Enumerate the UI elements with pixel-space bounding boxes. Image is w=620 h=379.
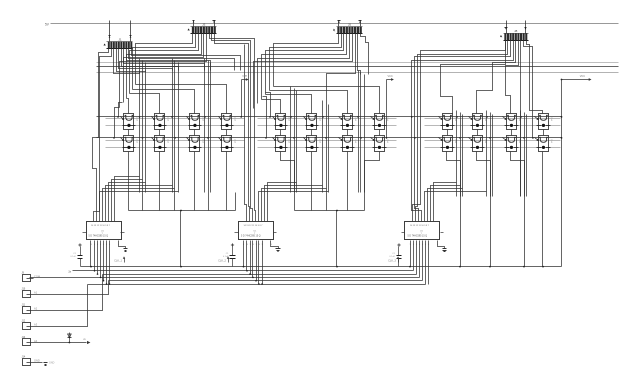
svg-text:CLK_3: CLK_3 bbox=[388, 259, 396, 263]
svg-text:COM: COM bbox=[34, 275, 40, 279]
svg-text:J1: J1 bbox=[118, 38, 122, 42]
svg-text:VCC: VCC bbox=[580, 75, 585, 78]
svg-text:Q1A: Q1A bbox=[386, 139, 389, 144]
svg-text:VPP: VPP bbox=[242, 75, 247, 78]
svg-text:A2: A2 bbox=[34, 307, 38, 311]
svg-text:VCC: VCC bbox=[388, 75, 393, 78]
svg-text:5 D 74HC595 15 Q: 5 D 74HC595 15 Q bbox=[408, 236, 428, 238]
svg-text:Q1A: Q1A bbox=[167, 117, 170, 122]
svg-text:14 13 12 11 10 9 8 7: 14 13 12 11 10 9 8 7 bbox=[410, 225, 430, 227]
svg-text:14 13 12 11 10 9 8 7: 14 13 12 11 10 9 8 7 bbox=[91, 225, 111, 227]
svg-text:Q1A: Q1A bbox=[354, 139, 357, 144]
svg-text:Q1A: Q1A bbox=[234, 117, 237, 122]
svg-text:Q1A: Q1A bbox=[136, 117, 139, 122]
svg-text:Q1A: Q1A bbox=[550, 139, 553, 144]
svg-text:Q1A: Q1A bbox=[234, 139, 237, 144]
svg-text:GND: GND bbox=[34, 359, 40, 363]
svg-text:VD: VD bbox=[83, 339, 86, 341]
svg-text:A1: A1 bbox=[34, 291, 38, 295]
svg-text:Q1A: Q1A bbox=[550, 117, 553, 122]
svg-text:Q1A: Q1A bbox=[167, 139, 170, 144]
svg-text:CLK_2: CLK_2 bbox=[218, 259, 226, 263]
svg-text:GND: GND bbox=[49, 362, 55, 365]
svg-text:0.1uF: 0.1uF bbox=[389, 256, 395, 258]
svg-text:A3: A3 bbox=[34, 323, 38, 327]
svg-text:5 D 74HC595 15 Q: 5 D 74HC595 15 Q bbox=[241, 236, 261, 238]
svg-text:Q1A: Q1A bbox=[354, 117, 357, 122]
svg-text:J8: J8 bbox=[514, 29, 518, 33]
svg-text:Q1A: Q1A bbox=[136, 139, 139, 144]
svg-text:0.1uF: 0.1uF bbox=[70, 256, 76, 258]
svg-text:5 D 74HC595 15 Q: 5 D 74HC595 15 Q bbox=[89, 236, 109, 238]
svg-text:14 13 12 11 10 9 8 7: 14 13 12 11 10 9 8 7 bbox=[244, 225, 264, 227]
svg-text:Q1A: Q1A bbox=[319, 139, 322, 144]
svg-text:Q1A: Q1A bbox=[319, 117, 322, 122]
svg-text:J5: J5 bbox=[348, 23, 352, 27]
svg-text:J3: J3 bbox=[202, 22, 206, 26]
svg-text:CLK_1: CLK_1 bbox=[114, 259, 122, 263]
